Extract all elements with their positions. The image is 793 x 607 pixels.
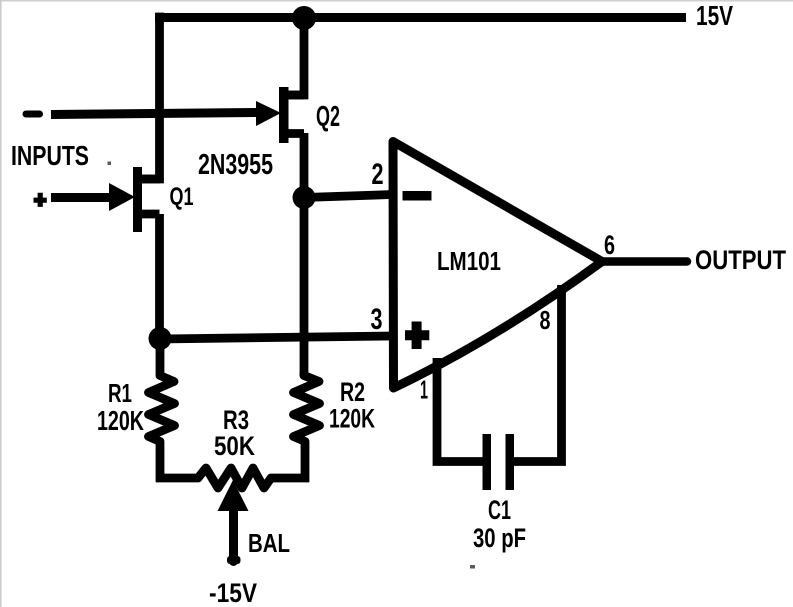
svg-text:2: 2 [372,158,384,191]
capacitor C1 [483,434,515,490]
transistor Q2 [256,87,304,143]
svg-text:15V: 15V [696,0,733,31]
svg-text:R1: R1 [108,378,132,408]
wire Q2 source down to R2 [300,133,309,376]
wire Q2 drain up to rail [288,17,304,95]
wiper arrow of R3 [218,480,249,564]
junction rail / Q2 drain [292,6,316,30]
label plus inside op-amp [405,322,429,350]
svg-text:-15V: -15V [209,578,257,607]
svg-text:50K: 50K [214,431,255,461]
wire pin 2 inverting input [304,195,392,198]
wire pin 8 down to C1 [513,285,562,462]
junction Q1 source / R1 / pin 3 [149,327,172,350]
svg-text:INPUTS: INPUTS [11,140,89,171]
resistor R2 120K [294,372,320,482]
svg-text:BAL: BAL [248,528,290,558]
label plus input [34,193,47,207]
wire inverting input (-) to Q2 gate [51,113,258,115]
svg-text:120K: 120K [329,404,375,434]
wire +15V supply rail [155,13,686,22]
wire output pin 6 [600,257,687,266]
wire noninverting input (+) to Q1 gate [51,193,114,202]
svg-text:120K: 120K [97,405,144,436]
svg-text:C1: C1 [488,495,511,525]
svg-text:1: 1 [420,375,428,405]
wire Q1 source down to summing node [155,214,164,338]
wire pin 3 noninverting input [160,336,392,339]
junction Q2 source / pin 2 [293,186,316,209]
svg-text:Q2: Q2 [316,101,340,133]
svg-text:2N3955: 2N3955 [198,149,273,181]
svg-text:OUTPUT: OUTPUT [695,245,786,275]
potentiometer R3 50K [156,468,309,488]
svg-text:6: 6 [604,230,615,260]
wire rail down to Q1 drain [141,13,160,179]
transistor Q1 [109,167,160,232]
svg-text:8: 8 [540,305,551,335]
resistor R1 120K [149,334,175,482]
label minus inside op-amp [403,191,432,201]
svg-text:3: 3 [371,303,383,336]
svg-text:LM101: LM101 [437,246,501,276]
svg-text:R2: R2 [340,377,365,407]
label minus input [26,111,40,118]
svg-text:30 pF: 30 pF [473,523,526,553]
op-amp U1 LM101 [393,142,602,389]
svg-text:Q1: Q1 [170,183,194,211]
wire pin 1 down to C1 [437,358,483,462]
